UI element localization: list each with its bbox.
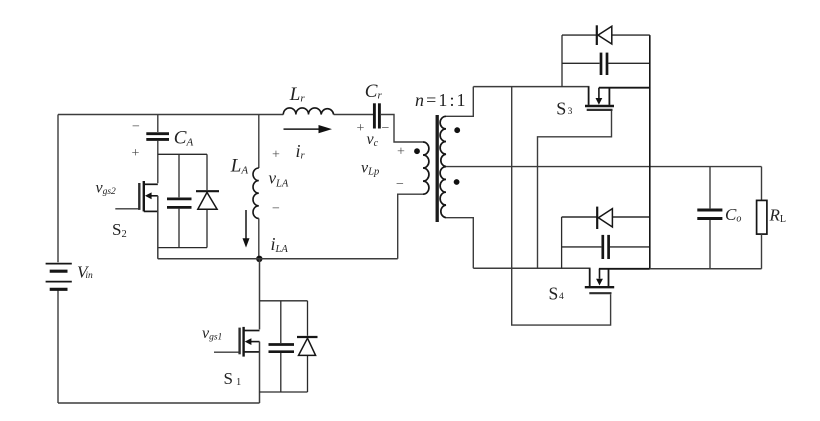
wire S1 source vertical (259, 342, 261, 403)
transformer T1 core (436, 115, 439, 222)
capacitor C3 (S3 parallel) (601, 53, 607, 75)
wire S4 source rail (599, 268, 650, 270)
node secondary lower polarity dot (454, 179, 460, 185)
capacitor C2 (S2 parallel) (167, 199, 192, 208)
transistor Q3 S3 MOSFET (585, 87, 614, 110)
wire S2 snubber box top (158, 153, 207, 155)
node secondary upper polarity dot (454, 127, 460, 133)
diode D2 (S2 body) (196, 191, 219, 209)
wire LA branch from top rail (258, 115, 260, 169)
wire top rail between Lr and Cr (334, 114, 373, 116)
wire S3 box left (561, 35, 563, 87)
svg-text:−: − (396, 177, 404, 192)
wire secondary bottom lead (446, 218, 473, 269)
transformer T1 secondary upper winding (440, 116, 446, 166)
transistor Q2 S2 MOSFET (115, 181, 158, 211)
svg-text:+: + (397, 145, 405, 160)
wire S1 diode branch upper (307, 301, 309, 336)
svg-text:−: − (272, 202, 280, 217)
resistor RL (757, 200, 767, 234)
wire Co branch lower (709, 220, 711, 269)
wire primary bottom return (398, 194, 423, 259)
wire node rail (158, 258, 398, 260)
wire S1 cap branch upper (280, 301, 282, 343)
wire left rail lower (57, 290, 59, 403)
capacitor CA (146, 134, 169, 140)
wire S4 box left (561, 217, 563, 268)
transistor Q1 S1 MOSFET (214, 327, 260, 357)
wire bottom rail (58, 402, 260, 404)
svg-text:n=1:1: n=1:1 (415, 90, 468, 110)
wire output bottom rail (650, 268, 762, 270)
capacitor Co (697, 210, 722, 219)
wire S3 diode branch (562, 34, 650, 36)
wire S3 gate lead (538, 111, 612, 268)
node A junction dot (256, 256, 262, 262)
svg-text:−: − (132, 120, 140, 135)
wire LA to node (258, 218, 260, 258)
wire CA branch from top rail (157, 115, 159, 133)
node primary polarity dot (414, 148, 420, 154)
arrow ir current (284, 128, 320, 130)
svg-text:+: + (272, 148, 280, 163)
transformer T1 secondary lower winding (440, 167, 446, 218)
wire S1 box bottom (260, 391, 308, 393)
wire Cr to primary step (381, 115, 423, 143)
transformer T1 primary winding (423, 142, 429, 194)
wire S4 diode branch (562, 216, 650, 218)
wire RL lead lower (761, 234, 763, 269)
wire secondary top lead (446, 87, 473, 117)
wire S1 drain vertical (259, 259, 261, 330)
capacitor Cr (374, 103, 379, 128)
diode D4 (S4 body) (597, 207, 612, 229)
wire S4 gate lead (512, 87, 611, 326)
wire S3 cap branch (562, 62, 650, 64)
wire S2 diode branch upper (206, 154, 208, 190)
wire S1 diode branch lower (307, 355, 309, 392)
wire S4 cap branch (562, 246, 650, 248)
svg-text:+: + (357, 121, 365, 136)
inductor LA (253, 168, 259, 218)
wire S2 snubber cap branch lower (178, 209, 180, 248)
battery V1 Vin (46, 264, 72, 290)
wire secondary bottom rail to S4 drain (473, 267, 590, 269)
wire secondary top rail to S3 drain (473, 86, 589, 88)
inductor Lr (283, 108, 333, 115)
wire CA to S2 drain (157, 141, 159, 184)
wire S2 snubber cap branch upper (178, 154, 180, 197)
svg-text:+: + (132, 146, 140, 161)
svg-text:−: − (382, 121, 390, 136)
diode D1 (S1 body) (297, 337, 318, 355)
wire S2 diode branch lower (206, 209, 208, 247)
wire top rail left (58, 114, 283, 116)
wire left rail upper (57, 115, 59, 263)
wire S2 source vertical (157, 196, 159, 259)
wire output bus vertical (649, 35, 651, 269)
wire S3 source rail (599, 87, 650, 89)
transistor Q4 S4 MOSFET (585, 268, 614, 293)
wire S2 snubber box bottom (158, 247, 207, 249)
diode D3 (S3 body) (597, 25, 612, 45)
wire RL lead upper (761, 167, 763, 201)
wire S1 box top (260, 300, 308, 302)
arrow iLA current (245, 210, 247, 239)
capacitor C4 (S4 parallel) (603, 235, 609, 259)
wire center tap rail (446, 166, 762, 168)
wire Co branch upper (709, 167, 711, 209)
capacitor C1 (S1 parallel) (269, 345, 295, 352)
wire S1 cap branch lower (280, 353, 282, 392)
